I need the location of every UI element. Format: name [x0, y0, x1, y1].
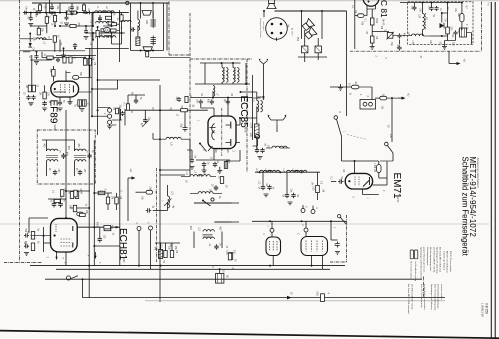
wire — [121, 33, 123, 44]
node t4 — [240, 91, 242, 93]
svg-text:50Ω: 50Ω — [316, 292, 318, 297]
wire — [78, 226, 104, 228]
wire — [187, 149, 192, 151]
wire — [155, 242, 180, 244]
node b7 — [97, 79, 99, 81]
node r4 — [269, 265, 271, 267]
node a13 — [74, 47, 76, 49]
node a11 — [66, 12, 68, 14]
wire — [94, 245, 120, 247]
wire — [366, 5, 368, 16]
node a25 — [76, 12, 78, 14]
tube ECH81 envelope — [51, 218, 78, 252]
coil L6 — [36, 38, 46, 40]
wire — [387, 97, 398, 99]
svg-text:2M: 2M — [380, 26, 382, 29]
resistor R46 — [170, 251, 173, 258]
wire — [367, 8, 376, 10]
wire — [471, 33, 473, 45]
svg-text:1M: 1M — [93, 62, 95, 65]
wire — [94, 192, 112, 194]
capacitor C12 — [177, 97, 181, 102]
svg-text:1M: 1M — [175, 250, 177, 253]
wire — [28, 218, 30, 233]
capacitor C27 — [338, 179, 344, 183]
svg-text:1M: 1M — [354, 10, 356, 13]
capacitor C13 — [199, 99, 203, 105]
capacitor C16 — [202, 162, 206, 168]
node a22 — [36, 51, 38, 53]
wire bottom rail 4 — [83, 297, 446, 299]
wire — [253, 145, 258, 147]
capacitor C6 — [26, 95, 30, 100]
wire — [152, 133, 154, 139]
node a4 — [29, 33, 31, 35]
resistor R35 pill — [77, 212, 84, 216]
wire — [42, 57, 47, 59]
wire — [414, 3, 416, 6]
node a9 — [92, 39, 94, 41]
wire — [127, 95, 129, 104]
wire — [373, 184, 387, 186]
wire — [76, 190, 78, 193]
svg-text:Gleichspannungen: Gleichspannungen — [426, 247, 428, 266]
terminal T3 — [108, 120, 112, 124]
plug contact A — [302, 46, 308, 53]
svg-text:L 599/13 Wi: L 599/13 Wi — [481, 303, 485, 317]
coil IF1a — [47, 149, 58, 151]
wire — [445, 40, 456, 42]
wire — [227, 98, 229, 116]
wire — [331, 239, 338, 241]
resistor R51 — [39, 5, 42, 11]
resistor R60 — [69, 57, 72, 63]
node a16 — [39, 12, 41, 14]
cap block C45 — [216, 274, 224, 284]
ground r18 — [42, 108, 47, 111]
+U arrow 2 — [398, 97, 402, 99]
node t2 — [227, 97, 229, 99]
node a5 — [30, 12, 32, 14]
wire — [85, 26, 87, 29]
wire — [56, 252, 58, 260]
socket pin 2 — [280, 23, 283, 26]
node a18 — [54, 25, 56, 27]
wire — [83, 11, 85, 13]
ground tl7 — [34, 62, 39, 65]
wire — [111, 226, 119, 228]
node a24 — [119, 12, 121, 14]
arrow on rail4 — [287, 296, 292, 300]
ground left pair — [29, 103, 34, 106]
resistor R58 — [112, 23, 117, 26]
capacitor C56 — [34, 54, 38, 59]
plug contact B — [315, 46, 321, 53]
node a6 — [92, 12, 94, 14]
coil L2 — [104, 11, 115, 13]
wire bus e1 — [354, 0, 356, 49]
resistor R53 — [53, 16, 56, 22]
wire — [138, 231, 140, 266]
connector block — [360, 100, 376, 110]
svg-text:9a 90: 9a 90 — [396, 196, 399, 203]
wire — [82, 279, 84, 290]
node c7 — [93, 192, 95, 194]
wire — [59, 97, 61, 101]
wire — [214, 221, 239, 223]
chassis boundary bottom-left dash-dot — [4, 262, 42, 264]
tuner shield left dash-dot — [189, 13, 191, 160]
speaker LS1 — [267, 0, 276, 9]
resistor R12 — [146, 52, 149, 57]
wire bottom rail 3 — [45, 278, 422, 280]
core dashes T1 — [223, 67, 225, 82]
node b5 — [97, 109, 99, 111]
wire — [42, 139, 75, 141]
svg-text:1M: 1M — [25, 85, 27, 88]
ECC85 right anode bars — [230, 122, 232, 147]
socket X2 outline — [301, 237, 328, 256]
wire — [380, 160, 393, 162]
svg-text:METZ-914/-954/-1072: METZ-914/-954/-1072 — [468, 157, 477, 238]
wire — [74, 47, 76, 48]
node c5 — [65, 190, 67, 192]
svg-text:bei Rundfunkempfang: bei Rundfunkempfang — [414, 262, 416, 282]
node f3 — [301, 171, 303, 173]
resistor R59 — [63, 57, 66, 63]
connector pin a — [363, 102, 367, 106]
resistor R63 — [61, 190, 64, 197]
wire — [286, 172, 288, 193]
wire — [56, 54, 96, 56]
capacitor C55 — [84, 29, 88, 34]
ground tl2 — [64, 23, 69, 26]
ECC85 shield dash-dot — [221, 108, 223, 156]
scan fold faint line — [0, 223, 489, 225]
wire — [23, 51, 30, 53]
capacitor C3 — [130, 27, 135, 31]
wire — [359, 86, 372, 88]
filter shield right dash-dot — [168, 2, 170, 56]
ground EF89 cathode — [68, 102, 73, 105]
node t6 — [245, 83, 247, 85]
wire — [74, 162, 76, 177]
wire — [82, 290, 84, 298]
wire — [46, 140, 48, 151]
coil L17 — [296, 170, 307, 172]
switch lever S3 — [388, 146, 394, 154]
ECC85 left grid bar — [208, 128, 216, 152]
wire — [117, 30, 120, 32]
resistor R38 — [115, 197, 118, 204]
capacitor C52 — [50, 5, 54, 10]
ECC85 right grid ticks — [226, 125, 241, 143]
resistor R65 — [54, 199, 60, 202]
wire af bus — [252, 220, 347, 222]
resistor R4 — [108, 22, 114, 25]
resistor R29 pill — [460, 14, 464, 22]
wire — [441, 13, 443, 23]
resistor R21 — [185, 96, 188, 102]
wire — [128, 94, 145, 96]
coil L23 — [203, 230, 214, 232]
node a8 — [92, 25, 94, 27]
tube EM71 envelope — [345, 173, 372, 189]
node r3 — [219, 268, 221, 270]
core dashes L34 — [425, 13, 427, 30]
ground ecc1 — [217, 171, 222, 174]
wire — [124, 109, 126, 126]
node a17 — [83, 12, 85, 14]
capacitor C32 — [335, 241, 340, 247]
ground tl3 — [61, 55, 66, 58]
wire — [71, 3, 73, 5]
wire — [59, 40, 61, 52]
switch lever S2 — [337, 119, 342, 136]
wire — [120, 109, 122, 120]
paper edge shade top — [0, 0, 499, 1]
coil IF2b — [75, 160, 86, 162]
wire — [245, 63, 247, 84]
wire — [322, 256, 324, 270]
output boundary bottom dash-dot — [330, 261, 347, 263]
ground trimmers — [80, 109, 85, 112]
wire — [424, 35, 431, 37]
wire — [39, 3, 41, 5]
wire — [317, 172, 319, 185]
wire tuner top rail — [200, 62, 241, 64]
svg-text:Lautsprecher-Stecker: Lautsprecher-Stecker — [259, 18, 262, 38]
wire — [46, 23, 48, 33]
wire — [317, 53, 319, 60]
node a10 — [111, 25, 113, 27]
capacitor C58 — [24, 233, 29, 237]
node ft3 — [140, 50, 142, 52]
svg-text:Spannungen mit Voltmeter: Spannungen mit Voltmeter — [430, 284, 433, 310]
wire — [257, 139, 259, 146]
wire agc line — [85, 47, 129, 49]
wire af rail — [255, 171, 320, 173]
resistor R66 — [73, 205, 76, 211]
svg-text:2M: 2M — [79, 189, 81, 192]
wire — [46, 25, 48, 27]
svg-text:1M: 1M — [68, 191, 70, 194]
svg-text:Spannungswerte sind ange-: Spannungswerte sind ange- — [436, 247, 439, 275]
socket circle — [266, 18, 288, 40]
wire — [253, 97, 261, 99]
switch pivot S4 — [338, 215, 341, 218]
svg-text:Wechselspannungen bei: Wechselspannungen bei — [429, 247, 431, 271]
wire — [190, 193, 198, 195]
wire grid line ecc — [125, 109, 208, 111]
resistor R52 — [83, 5, 86, 11]
svg-text:OA: OA — [444, 19, 447, 23]
coil L5 — [105, 36, 116, 38]
trimmer Tp2 — [82, 100, 86, 106]
ground tl1 — [28, 24, 33, 27]
svg-text:gegen Chassis gemessen: gegen Chassis gemessen — [423, 247, 425, 273]
ECH81 cathode dot — [54, 234, 56, 236]
coil L25 — [122, 20, 132, 22]
wire — [191, 150, 193, 159]
wire top det rail — [400, 2, 462, 4]
node t5 — [232, 62, 234, 64]
wire — [118, 79, 160, 81]
wire — [241, 91, 257, 93]
ground antenna — [258, 157, 263, 160]
resistor R56 hatched — [104, 28, 111, 33]
node sp3 — [263, 10, 265, 12]
coil L24 — [203, 237, 214, 239]
svg-text:2M: 2M — [111, 196, 113, 199]
wire — [74, 140, 76, 151]
resistor R34 — [75, 192, 78, 199]
wire tuner mid rail — [195, 83, 250, 85]
coil IF1b — [47, 160, 58, 162]
resistor R8 — [53, 36, 56, 42]
coil T1 secondary b — [237, 68, 239, 83]
socket X1 pins — [270, 241, 278, 251]
capacitor C51 — [413, 5, 417, 10]
wire — [31, 55, 33, 85]
EM71 grid dashes — [355, 177, 359, 187]
wire bus b1 — [91, 13, 93, 90]
node c8 — [65, 217, 67, 219]
wire filter bottom — [131, 50, 164, 52]
wire — [371, 87, 373, 100]
node a1 — [45, 12, 47, 14]
wire — [39, 11, 41, 13]
resistor R31 pill — [377, 165, 381, 173]
wire — [160, 243, 162, 250]
node a2 — [59, 12, 61, 14]
wire — [271, 232, 273, 237]
wire — [121, 13, 123, 15]
EF89 anode bar — [72, 86, 74, 93]
ground tl6 — [84, 37, 89, 40]
capacitor C17 — [213, 162, 217, 168]
coil L34 — [423, 14, 425, 30]
wire — [41, 52, 43, 58]
resistor R41 pill — [146, 190, 153, 194]
ground f2 — [288, 202, 293, 205]
svg-text:MR 57 90 verwenden: MR 57 90 verwenden — [449, 251, 452, 273]
wire filter v5 — [166, 3, 168, 51]
node a14 — [63, 47, 65, 49]
wire — [52, 66, 54, 70]
antenna symbol — [260, 61, 268, 71]
capacitor C21 — [397, 33, 401, 38]
wire — [171, 243, 173, 251]
svg-text:der Röhren AM/ZF-Teil die: der Röhren AM/ZF-Teil die — [432, 247, 435, 273]
resistor R47 — [321, 294, 325, 302]
wire — [252, 75, 254, 140]
ground ech left — [24, 253, 29, 256]
core IF1 — [46, 156, 58, 158]
wire — [371, 43, 373, 47]
resistor R25 pill — [358, 14, 364, 18]
terminal T2 — [108, 114, 112, 118]
resistor R28 — [446, 27, 450, 34]
wire — [240, 117, 257, 119]
diode D2 — [29, 43, 32, 47]
wire — [304, 30, 306, 46]
wire bottom rail 2 — [56, 268, 330, 270]
wire — [378, 161, 380, 165]
bottom border rule — [0, 331, 499, 339]
resistor R26 — [370, 18, 374, 25]
wire — [30, 59, 52, 61]
wire — [461, 3, 463, 14]
capacitor C11 — [183, 125, 188, 132]
wire — [165, 243, 167, 251]
svg-text:100k: 100k — [250, 123, 252, 129]
svg-text:9x83: 9x83 — [53, 125, 56, 131]
node ft4 — [152, 50, 154, 52]
ECC85 left cathode arcs — [212, 124, 215, 141]
capacitor C47 — [65, 15, 69, 20]
wire — [212, 91, 214, 98]
wire — [46, 13, 48, 17]
wire — [317, 38, 319, 46]
EM71 cathode dot — [348, 180, 350, 182]
capacitor C31 — [291, 193, 295, 199]
resistor R22 hatched — [254, 124, 259, 138]
ground ecc2 — [202, 170, 207, 173]
capacitor C23 — [429, 6, 433, 11]
wire — [76, 25, 93, 27]
wire — [65, 71, 67, 82]
coil T1 secondary a — [233, 68, 235, 83]
resistor R24 pill — [352, 85, 359, 89]
wire dashdot end — [423, 277, 425, 299]
wire — [341, 136, 343, 161]
wire — [375, 5, 377, 10]
ground r mid — [338, 88, 343, 91]
wire — [117, 23, 120, 25]
coil L15 — [269, 170, 280, 172]
wire — [31, 235, 51, 237]
wire — [232, 63, 234, 68]
svg-text:9a 90: 9a 90 — [244, 127, 247, 134]
pin arrow ech 1 — [55, 257, 57, 260]
node f6 — [330, 220, 332, 222]
capacitor C35 — [53, 170, 57, 176]
wire — [111, 13, 113, 22]
wire — [194, 202, 239, 204]
wire — [201, 107, 214, 109]
wire — [305, 232, 307, 236]
wire bus c1 — [65, 110, 67, 218]
wire — [83, 3, 85, 5]
legend square 1 — [410, 250, 413, 259]
ECH81 triode grid — [55, 224, 57, 232]
ground tl4 — [50, 12, 55, 15]
wire — [49, 0, 51, 13]
svg-text:+U: +U — [129, 169, 133, 173]
capacitor C57 — [56, 58, 60, 63]
wire — [221, 232, 223, 249]
node b3 — [91, 88, 93, 90]
node c4 — [93, 226, 95, 228]
wire — [263, 97, 265, 100]
capacitor C9 — [134, 98, 138, 104]
transformer core bottom — [143, 47, 152, 51]
wire — [226, 160, 240, 162]
wire — [91, 89, 93, 116]
resistor R19 inline — [181, 109, 188, 112]
ECH81 hexode grid dashes — [61, 239, 72, 246]
